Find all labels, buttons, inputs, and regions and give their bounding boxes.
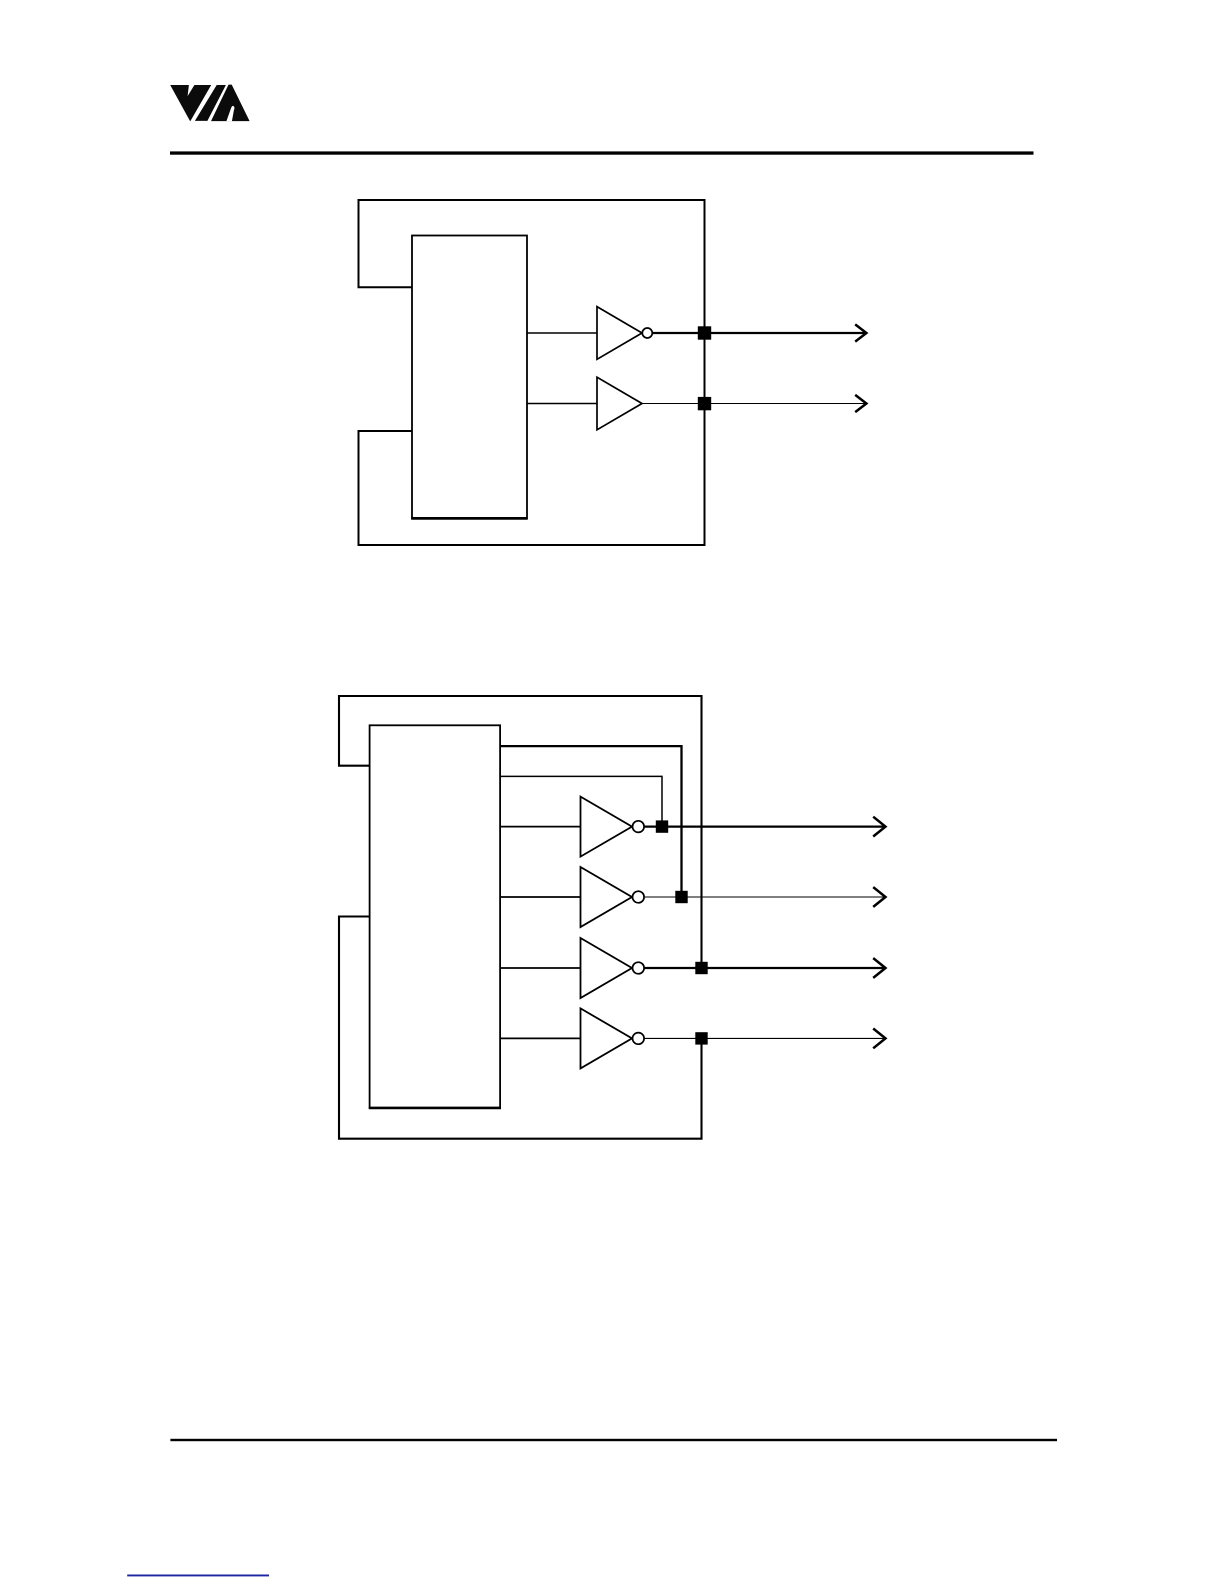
pad square: pin on package edge (D1 top) — [698, 326, 711, 339]
internal block D2 bottom edge — [369, 1107, 501, 1110]
inverter U6 — [581, 1008, 633, 1068]
arrow: output row 4 — [873, 1029, 885, 1049]
inverter U5 — [581, 938, 633, 998]
wire: block to inverter U6 input — [500, 1037, 581, 1039]
pad square 2 — [675, 891, 687, 903]
footer link underline — [127, 1575, 269, 1577]
arrow: output 2 — [855, 395, 866, 412]
arrow: output 1 — [855, 324, 866, 341]
pad square 1 — [656, 820, 668, 832]
inverter U3 bubble — [633, 821, 645, 833]
wire: inverter U4 output — [644, 896, 885, 898]
inverter U4 — [581, 867, 633, 927]
wire: block to inverter U4 input — [500, 896, 581, 898]
arrow: output row 3 — [873, 958, 885, 978]
wire: block to inverter U5 input — [500, 967, 581, 969]
header rule — [170, 151, 1034, 154]
chip package outline D2 upper part — [339, 696, 702, 963]
wire: inverter U3 output — [644, 825, 885, 827]
arrow: output row 2 — [873, 887, 885, 907]
inverter U3 — [581, 797, 633, 857]
inverter U6 bubble — [633, 1033, 645, 1045]
internal block D1 — [412, 236, 527, 519]
wire: block to inverter U3 input — [500, 826, 581, 828]
inverter U1 bubble — [642, 328, 652, 338]
wire: feedback A (block to pad 2) — [500, 746, 682, 897]
wire: inverter U1 output — [652, 332, 865, 334]
footer rule — [170, 1439, 1057, 1441]
pad square 3 (on package edge) — [695, 962, 707, 974]
inverter U1 — [597, 307, 642, 360]
wire: inverter U5 output — [644, 967, 885, 969]
wire: feedback B (block to pad 1) — [500, 776, 662, 826]
chip package outline D2 lower part — [339, 917, 702, 1139]
inverter U5 bubble — [633, 962, 645, 974]
buffer U2 (non-inverting) — [597, 377, 642, 430]
internal block D1 bottom edge — [411, 517, 527, 520]
wire: block to inverter U1 input — [527, 332, 597, 334]
pad square: pin on package edge (D1 bottom) — [698, 397, 711, 410]
wire: inverter U6 output — [644, 1037, 885, 1039]
internal block D2 — [370, 725, 501, 1108]
pad square 4 (on package edge) — [695, 1032, 707, 1044]
inverter U4 bubble — [633, 891, 645, 903]
chip package outline D1 — [359, 200, 705, 545]
VIA logo — [170, 85, 249, 122]
wire: buffer U2 output — [642, 403, 866, 405]
arrow: output row 1 — [873, 817, 885, 837]
wire: block to buffer U2 input — [527, 403, 597, 405]
